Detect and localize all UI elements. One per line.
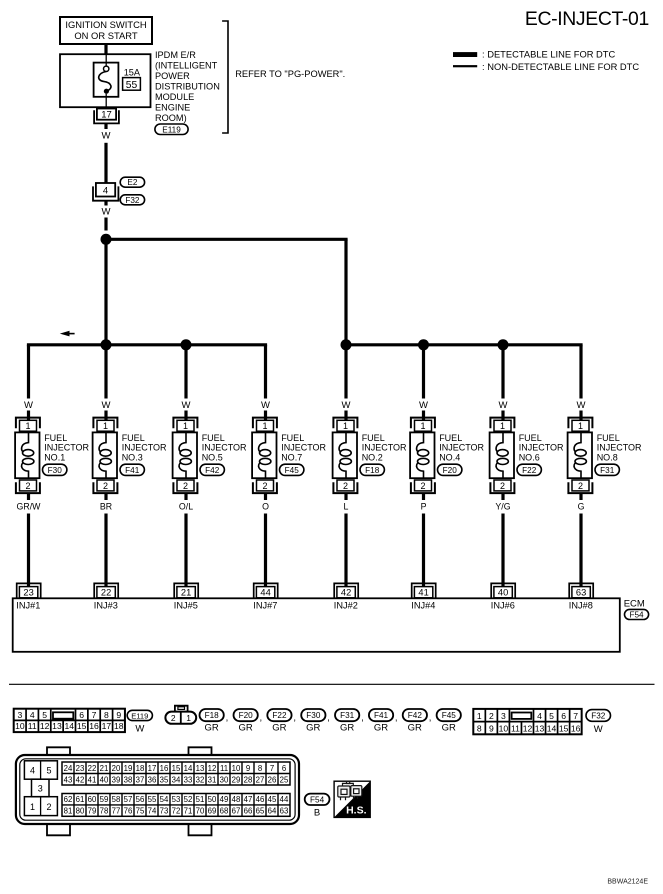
wire injector NO.3 to ECM xyxy=(104,493,107,500)
svg-text:15A: 15A xyxy=(124,68,141,78)
svg-text:17: 17 xyxy=(101,110,112,121)
label fuel injector NO.7 xyxy=(281,433,326,462)
svg-text:F32: F32 xyxy=(591,711,606,720)
svg-text:39: 39 xyxy=(112,775,121,784)
svg-text:8: 8 xyxy=(104,710,109,720)
svg-text:15: 15 xyxy=(172,764,181,773)
svg-text:37: 37 xyxy=(136,775,145,784)
svg-text:67: 67 xyxy=(232,807,241,816)
svg-text:W: W xyxy=(135,723,144,734)
svg-text:64: 64 xyxy=(268,807,277,816)
svg-text:O/L: O/L xyxy=(179,501,193,511)
svg-text:2: 2 xyxy=(171,713,176,723)
svg-text:: DETECTABLE LINE FOR DTC: : DETECTABLE LINE FOR DTC xyxy=(482,50,616,60)
svg-text:W: W xyxy=(102,131,111,142)
svg-text:F41: F41 xyxy=(125,466,140,475)
pin 17 bracket xyxy=(94,110,119,123)
svg-text:W: W xyxy=(261,400,270,411)
svg-text:NO.7: NO.7 xyxy=(281,452,302,462)
svg-text:1: 1 xyxy=(343,421,348,431)
injector NO.4 pin 2 terminal xyxy=(411,480,435,493)
svg-text:F22: F22 xyxy=(522,466,537,475)
svg-text:INJECTOR: INJECTOR xyxy=(281,443,326,453)
connector view E119 grid xyxy=(14,709,125,732)
wire left group horizontal xyxy=(27,343,267,346)
svg-text:,: , xyxy=(429,713,432,724)
wire injector NO.2 to ECM xyxy=(344,493,347,500)
label fuel injector NO.2 xyxy=(362,433,407,462)
svg-text:W: W xyxy=(342,400,351,411)
svg-text:GR/W: GR/W xyxy=(17,501,42,511)
svg-text:G: G xyxy=(578,501,585,511)
svg-text:H.S.: H.S. xyxy=(346,805,367,817)
svg-text:NO.4: NO.4 xyxy=(439,452,460,462)
injector NO.8 pin 2 terminal xyxy=(568,480,592,493)
svg-text:,: , xyxy=(395,713,398,724)
fuel injector NO.1 coil body xyxy=(15,432,39,478)
svg-text:60: 60 xyxy=(88,795,97,804)
junction node x=106 xyxy=(101,339,112,350)
label fuel injector NO.3 xyxy=(122,433,167,462)
ECM connector F54 view xyxy=(16,755,299,824)
injector NO.2 pin 2 terminal xyxy=(333,480,357,493)
separator line xyxy=(9,683,655,685)
fuse number 55 box xyxy=(123,78,141,91)
svg-text:2: 2 xyxy=(500,481,505,491)
svg-text:44: 44 xyxy=(260,588,270,598)
svg-text:FUEL: FUEL xyxy=(122,433,145,443)
svg-text:ENGINE: ENGINE xyxy=(155,103,190,113)
wire branch to injector NO.1 xyxy=(27,345,30,399)
svg-text:INJECTOR: INJECTOR xyxy=(362,443,407,453)
svg-text:INJECTOR: INJECTOR xyxy=(202,443,247,453)
svg-text:69: 69 xyxy=(208,807,217,816)
svg-text:44: 44 xyxy=(280,795,289,804)
svg-text:GR: GR xyxy=(306,723,320,734)
svg-text:E2: E2 xyxy=(127,178,137,187)
svg-text:62: 62 xyxy=(64,795,73,804)
svg-text:58: 58 xyxy=(112,795,121,804)
svg-text:GR: GR xyxy=(340,723,354,734)
svg-text:54: 54 xyxy=(160,795,169,804)
svg-text:GR: GR xyxy=(238,723,252,734)
svg-text:73: 73 xyxy=(160,807,169,816)
svg-text:F42: F42 xyxy=(205,466,220,475)
svg-text:,: , xyxy=(327,713,330,724)
svg-text:W: W xyxy=(419,400,428,411)
svg-text:1: 1 xyxy=(103,421,108,431)
svg-text:4: 4 xyxy=(30,765,35,775)
svg-text:GR: GR xyxy=(204,723,218,734)
svg-text:GR: GR xyxy=(374,723,388,734)
svg-text:14: 14 xyxy=(184,764,193,773)
wire below connector 4 xyxy=(104,201,107,206)
svg-text:61: 61 xyxy=(76,795,85,804)
svg-text:35: 35 xyxy=(160,775,169,784)
svg-text:16: 16 xyxy=(571,723,581,733)
injector NO.5 pin 1 terminal xyxy=(173,418,197,432)
svg-text:INJ#2: INJ#2 xyxy=(334,600,358,610)
H.S. logo box xyxy=(334,781,370,817)
svg-text:78: 78 xyxy=(100,807,109,816)
svg-text:NO.5: NO.5 xyxy=(202,452,223,462)
svg-text:INJECTOR: INJECTOR xyxy=(439,443,484,453)
svg-text:11: 11 xyxy=(511,723,520,733)
svg-text:INJECTOR: INJECTOR xyxy=(122,443,167,453)
svg-text:IPDM E/R: IPDM E/R xyxy=(155,50,196,60)
legend detectable line swatch xyxy=(453,52,477,57)
fuel injector NO.8 coil body xyxy=(568,432,592,478)
svg-text:EC-INJECT-01: EC-INJECT-01 xyxy=(525,8,649,30)
svg-text:38: 38 xyxy=(124,775,133,784)
svg-text:8: 8 xyxy=(258,764,262,773)
svg-text:FUEL: FUEL xyxy=(281,433,304,443)
svg-text:68: 68 xyxy=(220,807,229,816)
svg-text:52: 52 xyxy=(184,795,193,804)
svg-text:2: 2 xyxy=(489,711,494,721)
arrow to preceding circuit xyxy=(68,333,75,335)
2-pin injector connector view xyxy=(175,706,188,712)
svg-text:41: 41 xyxy=(88,775,97,784)
ignition switch box xyxy=(60,17,152,44)
svg-text:8: 8 xyxy=(477,723,482,733)
svg-text:20: 20 xyxy=(112,764,121,773)
svg-text:1: 1 xyxy=(500,421,505,431)
svg-text:FUEL: FUEL xyxy=(44,433,67,443)
svg-text:12: 12 xyxy=(40,721,50,731)
svg-text:13: 13 xyxy=(535,723,545,733)
inline connector pin 4 box xyxy=(96,183,115,197)
connector F54 oval xyxy=(625,609,649,619)
svg-text:71: 71 xyxy=(184,807,193,816)
svg-text:MODULE: MODULE xyxy=(155,92,194,102)
connector F22 oval xyxy=(517,464,541,475)
connector F30 oval xyxy=(43,464,67,475)
svg-text:9: 9 xyxy=(116,710,121,720)
label fuel injector NO.6 xyxy=(519,433,564,462)
svg-text:14: 14 xyxy=(547,723,557,733)
wire branch to injector NO.8 xyxy=(579,345,582,399)
svg-text:16: 16 xyxy=(160,764,169,773)
svg-text:32: 32 xyxy=(196,775,205,784)
svg-text:W: W xyxy=(499,400,508,411)
svg-text:34: 34 xyxy=(172,775,181,784)
svg-text:GR: GR xyxy=(408,723,422,734)
connector E119 oval xyxy=(155,124,188,135)
wire fuse to pin 17 xyxy=(105,94,107,108)
wire branch to injector NO.2 xyxy=(344,345,347,399)
svg-text:INJ#1: INJ#1 xyxy=(16,600,40,610)
svg-text:26: 26 xyxy=(268,775,277,784)
svg-text:F32: F32 xyxy=(125,196,140,205)
svg-text:55: 55 xyxy=(126,80,138,91)
wire ignition to IPDM xyxy=(104,44,107,54)
connector F54 oval (bottom) xyxy=(305,794,330,805)
svg-text:F18: F18 xyxy=(365,466,380,475)
wire main horizontal branch xyxy=(104,238,347,241)
connector F41 oval xyxy=(120,464,144,475)
F54 bottom tabs xyxy=(47,824,70,835)
wire into fuse xyxy=(105,54,107,66)
wire injector NO.8 to ECM xyxy=(579,493,582,500)
svg-text:INJECTOR: INJECTOR xyxy=(519,443,564,453)
connector E119 oval (bottom) xyxy=(127,710,152,720)
svg-text:70: 70 xyxy=(196,807,205,816)
svg-text:27: 27 xyxy=(256,775,265,784)
svg-text:4: 4 xyxy=(537,711,542,721)
svg-text:W: W xyxy=(24,400,33,411)
svg-text:47: 47 xyxy=(244,795,253,804)
svg-text:F45: F45 xyxy=(285,466,300,475)
svg-text:FUEL: FUEL xyxy=(519,433,542,443)
svg-text:7: 7 xyxy=(270,764,274,773)
svg-text:INJ#8: INJ#8 xyxy=(569,600,593,610)
ECM pin 41 terminal xyxy=(412,583,436,598)
wire injector NO.4 to ECM xyxy=(422,493,425,500)
svg-text:F20: F20 xyxy=(239,711,254,720)
svg-text:1: 1 xyxy=(186,713,191,723)
ECM pin 44 terminal xyxy=(254,583,278,598)
injector NO.6 pin 1 terminal xyxy=(490,418,514,432)
wire branch to injector NO.4 xyxy=(422,345,425,399)
svg-text:1: 1 xyxy=(25,421,30,431)
svg-text:INJ#3: INJ#3 xyxy=(94,600,118,610)
svg-text:F22: F22 xyxy=(272,711,287,720)
svg-text:43: 43 xyxy=(64,775,73,784)
svg-text:3: 3 xyxy=(38,784,43,794)
svg-text:GR: GR xyxy=(272,723,286,734)
injector NO.6 pin 2 terminal xyxy=(490,480,514,493)
svg-text:48: 48 xyxy=(232,795,241,804)
svg-text:4: 4 xyxy=(30,710,35,720)
ECM pin 21 terminal xyxy=(174,583,198,598)
fuel injector NO.7 coil body xyxy=(252,432,276,478)
label fuel injector NO.1 xyxy=(44,433,89,462)
svg-text:41: 41 xyxy=(418,588,428,598)
wire branch to injector NO.6 xyxy=(501,345,504,399)
svg-text:NO.6: NO.6 xyxy=(519,452,540,462)
wire down to right group xyxy=(344,239,347,344)
svg-text:DISTRIBUTION: DISTRIBUTION xyxy=(155,82,220,92)
F54 top tabs xyxy=(47,747,70,755)
svg-text:F31: F31 xyxy=(340,711,355,720)
svg-text:P: P xyxy=(421,501,427,511)
svg-text:F45: F45 xyxy=(442,711,457,720)
fuse element xyxy=(104,66,109,71)
svg-text:Y/G: Y/G xyxy=(495,501,510,511)
svg-text:23: 23 xyxy=(76,764,85,773)
svg-text:IGNITION SWITCH: IGNITION SWITCH xyxy=(65,19,146,30)
fuel injector NO.2 coil body xyxy=(333,432,357,478)
svg-text:INJECTOR: INJECTOR xyxy=(597,443,642,453)
svg-text:5: 5 xyxy=(549,711,554,721)
injector NO.1 pin 2 terminal xyxy=(16,480,40,493)
svg-text:2: 2 xyxy=(183,481,188,491)
svg-text:56: 56 xyxy=(136,795,145,804)
ECM pin 23 terminal xyxy=(17,583,41,598)
svg-text:10: 10 xyxy=(499,723,509,733)
svg-text:ECM: ECM xyxy=(624,599,645,610)
svg-text:F18: F18 xyxy=(205,711,220,720)
svg-text:15: 15 xyxy=(559,723,569,733)
svg-text:5: 5 xyxy=(46,765,51,775)
wire below pin 17 xyxy=(104,124,107,129)
svg-text:51: 51 xyxy=(196,795,205,804)
svg-text:40: 40 xyxy=(100,775,109,784)
svg-text:7: 7 xyxy=(92,710,97,720)
svg-text:1: 1 xyxy=(183,421,188,431)
svg-text:W: W xyxy=(577,400,586,411)
svg-text:30: 30 xyxy=(220,775,229,784)
svg-text:18: 18 xyxy=(136,764,145,773)
svg-text:2: 2 xyxy=(578,481,583,491)
svg-text:2: 2 xyxy=(25,481,30,491)
injector NO.5 pin 2 terminal xyxy=(173,480,197,493)
injector NO.1 pin 1 terminal xyxy=(16,418,40,432)
connector E2 oval xyxy=(120,177,144,187)
svg-text:80: 80 xyxy=(76,807,85,816)
svg-text:FUEL: FUEL xyxy=(202,433,225,443)
svg-text:,: , xyxy=(226,713,229,724)
svg-text:40: 40 xyxy=(498,588,508,598)
junction node x=346 xyxy=(341,339,352,350)
svg-text:59: 59 xyxy=(100,795,109,804)
svg-text:9: 9 xyxy=(246,764,250,773)
wire left group vertical from junction A xyxy=(104,239,107,344)
svg-text:13: 13 xyxy=(52,721,62,731)
connector F18 oval (bottom row) xyxy=(200,709,224,721)
svg-text:1: 1 xyxy=(477,711,482,721)
svg-text:79: 79 xyxy=(88,807,97,816)
wire branch to injector NO.5 xyxy=(184,345,187,399)
svg-text:25: 25 xyxy=(280,775,289,784)
injector NO.7 pin 2 terminal xyxy=(253,480,277,493)
svg-text:5: 5 xyxy=(42,710,47,720)
svg-text:29: 29 xyxy=(232,775,241,784)
fuel injector NO.6 coil body xyxy=(490,432,514,478)
F54 pin number grid xyxy=(62,762,290,785)
svg-text:F54: F54 xyxy=(629,610,644,619)
pin 4 bracket xyxy=(93,186,118,200)
injector NO.3 pin 2 terminal xyxy=(93,480,117,493)
svg-text:16: 16 xyxy=(89,721,99,731)
svg-text:BBWA2124E: BBWA2124E xyxy=(607,879,648,886)
svg-text:F41: F41 xyxy=(374,711,389,720)
svg-text:50: 50 xyxy=(208,795,217,804)
svg-text:1: 1 xyxy=(578,421,583,431)
ECM pin 63 terminal xyxy=(569,583,593,598)
svg-text:INJ#7: INJ#7 xyxy=(253,600,277,610)
svg-text:INJ#5: INJ#5 xyxy=(174,600,198,610)
connector F31 oval xyxy=(595,464,619,475)
junction node x=186 xyxy=(181,339,192,350)
svg-text:(INTELLIGENT: (INTELLIGENT xyxy=(155,61,218,71)
fuel injector NO.5 coil body xyxy=(173,432,197,478)
svg-text:10: 10 xyxy=(15,721,25,731)
svg-text:F20: F20 xyxy=(443,466,458,475)
svg-text:2: 2 xyxy=(262,481,267,491)
refer to PG-POWER bracket xyxy=(222,21,228,133)
injector NO.8 pin 1 terminal xyxy=(568,418,592,432)
svg-text:24: 24 xyxy=(64,764,73,773)
svg-text:45: 45 xyxy=(268,795,277,804)
svg-text:63: 63 xyxy=(576,588,586,598)
svg-text:W: W xyxy=(182,400,191,411)
svg-text:66: 66 xyxy=(244,807,253,816)
svg-text:6: 6 xyxy=(282,764,286,773)
wire injector NO.6 to ECM xyxy=(501,493,504,500)
connector F18 oval xyxy=(360,464,384,475)
svg-text:REFER TO "PG-POWER".: REFER TO "PG-POWER". xyxy=(235,69,345,79)
svg-text:F42: F42 xyxy=(408,711,423,720)
svg-text:FUEL: FUEL xyxy=(362,433,385,443)
ECM pin 42 terminal xyxy=(334,583,358,598)
ECM box xyxy=(13,598,620,652)
svg-text:10: 10 xyxy=(232,764,241,773)
svg-text:46: 46 xyxy=(256,795,265,804)
svg-text:2: 2 xyxy=(46,802,51,812)
svg-text:W: W xyxy=(102,400,111,411)
svg-text:W: W xyxy=(102,207,111,218)
svg-text:3: 3 xyxy=(501,711,506,721)
fuel injector NO.3 coil body xyxy=(93,432,117,478)
svg-text:57: 57 xyxy=(124,795,133,804)
fuel injector NO.4 coil body xyxy=(410,432,434,478)
svg-text:18: 18 xyxy=(114,721,124,731)
junction node x=423.5 xyxy=(418,339,429,350)
svg-text:3: 3 xyxy=(17,710,22,720)
fuse 15A box xyxy=(94,63,119,97)
svg-text:1: 1 xyxy=(30,802,35,812)
svg-text:75: 75 xyxy=(136,807,145,816)
svg-text:1: 1 xyxy=(262,421,267,431)
svg-text:F54: F54 xyxy=(310,795,325,804)
svg-text:21: 21 xyxy=(181,588,191,598)
svg-text:19: 19 xyxy=(124,764,133,773)
injector NO.4 pin 1 terminal xyxy=(411,418,435,432)
svg-text:28: 28 xyxy=(244,775,253,784)
svg-text:11: 11 xyxy=(28,721,37,731)
svg-text:O: O xyxy=(262,501,269,511)
connector F20 oval xyxy=(438,464,462,475)
svg-text:,: , xyxy=(361,713,364,724)
ECM pin 22 terminal xyxy=(94,583,118,598)
svg-text:15: 15 xyxy=(77,721,87,731)
svg-text:6: 6 xyxy=(79,710,84,720)
wire W to junction xyxy=(104,218,107,231)
svg-text:13: 13 xyxy=(196,764,205,773)
wire branch to injector NO.3 xyxy=(104,345,107,399)
wire W down to connector 4 xyxy=(104,143,107,183)
svg-text:77: 77 xyxy=(112,807,121,816)
svg-text:22: 22 xyxy=(101,588,111,598)
svg-text:1: 1 xyxy=(420,421,425,431)
IPDM E/R box xyxy=(60,54,151,107)
connector F32 oval xyxy=(120,195,144,205)
svg-text:NO.2: NO.2 xyxy=(362,452,383,462)
svg-text:F30: F30 xyxy=(306,711,321,720)
svg-text:63: 63 xyxy=(280,807,289,816)
svg-text:55: 55 xyxy=(148,795,157,804)
svg-text:21: 21 xyxy=(100,764,109,773)
wire injector NO.1 to ECM xyxy=(27,493,30,500)
svg-text:6: 6 xyxy=(561,711,566,721)
junction node x=503 xyxy=(498,339,509,350)
svg-text:12: 12 xyxy=(523,723,533,733)
svg-text:17: 17 xyxy=(102,721,112,731)
svg-text:POWER: POWER xyxy=(155,71,190,81)
svg-text:42: 42 xyxy=(341,588,351,598)
